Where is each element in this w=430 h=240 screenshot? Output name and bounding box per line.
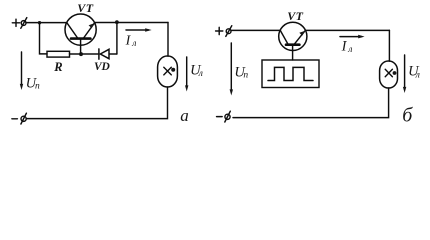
diode VD [99, 49, 109, 59]
wire top left (circuit a) [26, 22, 67, 24]
svg-text:п: п [35, 82, 40, 92]
terminal - (circuit a) [21, 113, 27, 124]
voltage arrow U supply (circuit a) [20, 52, 23, 90]
wire collector to lamp corner (circuit a) [95, 22, 169, 24]
terminal + (circuit b) [226, 26, 232, 37]
svg-text:л: л [415, 71, 420, 81]
terminal + (circuit a) [21, 18, 27, 29]
svg-text:л: л [131, 39, 136, 49]
wire lamp to bottom (circuit b) [233, 88, 389, 118]
voltage arrow U lamp (circuit b) [403, 55, 406, 93]
transistor VT (circuit b) [279, 22, 307, 60]
svg-text:б: б [402, 104, 413, 126]
voltage arrow U supply (circuit b) [230, 43, 233, 96]
node junction at bias branch (circuit a) [38, 21, 41, 24]
node collector junction dot [115, 20, 119, 24]
terminal - (circuit b) [225, 111, 231, 122]
plus sign circuit b [216, 27, 223, 34]
resistor R [47, 51, 70, 57]
wire diode to collector riser [110, 53, 117, 55]
pulse generator box [262, 60, 319, 88]
current arrow I lamp (circuit a) [126, 28, 152, 32]
svg-text:п: п [243, 71, 248, 81]
svg-text:VT: VT [77, 1, 93, 15]
minus sign (circuit a) [12, 118, 18, 120]
wire collector riser vertical [116, 23, 118, 55]
wire collector to lamp corner (circuit b) [305, 29, 389, 31]
svg-text:а: а [180, 106, 189, 125]
svg-text:л: л [198, 69, 203, 79]
svg-text:I: I [341, 39, 348, 55]
svg-text:VT: VT [287, 9, 303, 23]
svg-text:R: R [53, 60, 62, 74]
pulse waveform symbol [268, 67, 313, 80]
lamp EL (circuit a) [158, 56, 178, 87]
wire vertical bias drop (circuit a) [40, 23, 48, 54]
svg-text:I: I [125, 34, 132, 49]
wire right drop to lamp (circuit a) [167, 23, 169, 57]
voltage arrow U lamp (circuit a) [185, 57, 188, 92]
plus sign circuit a [12, 19, 19, 26]
wire right drop to lamp (circuit b) [388, 30, 390, 61]
wire top left (circuit b) [231, 29, 280, 31]
wire resistor to base node [70, 53, 98, 55]
lamp EL (circuit b) [380, 61, 398, 88]
node base junction dot [79, 52, 83, 56]
current arrow I lamp (circuit b) [340, 35, 365, 39]
minus sign (circuit b) [217, 116, 223, 118]
svg-text:VD: VD [94, 61, 110, 73]
transistor VT (circuit a) [65, 14, 96, 54]
svg-text:л: л [347, 45, 352, 55]
wire lamp to bottom (circuit a) [26, 87, 167, 119]
